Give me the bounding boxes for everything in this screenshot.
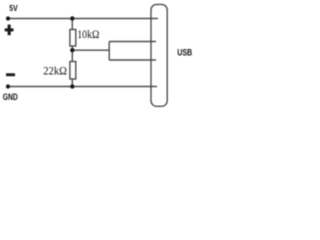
svg-text:5V: 5V — [9, 3, 18, 13]
svg-text:22kΩ: 22kΩ — [43, 65, 67, 77]
svg-text:GND: GND — [3, 92, 18, 103]
svg-text:USB: USB — [177, 47, 192, 58]
svg-text:10kΩ: 10kΩ — [77, 29, 99, 41]
